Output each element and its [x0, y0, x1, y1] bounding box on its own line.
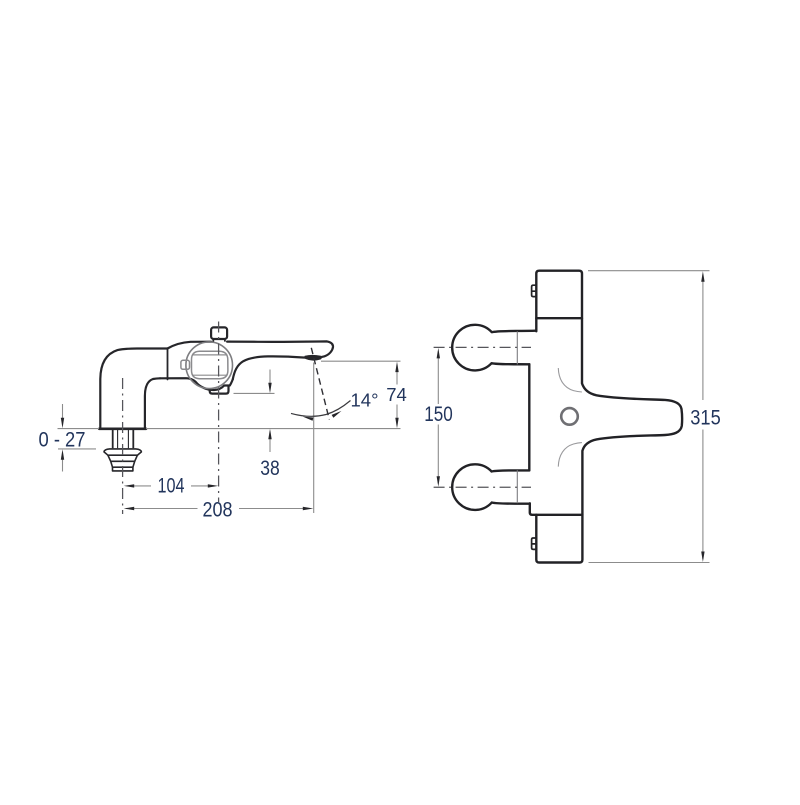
svg-text:150: 150 [424, 402, 453, 426]
svg-text:104: 104 [158, 473, 185, 497]
svg-text:208: 208 [203, 498, 233, 522]
svg-text:14°: 14° [351, 390, 379, 411]
svg-text:74: 74 [386, 384, 407, 405]
svg-text:0 - 27: 0 - 27 [39, 427, 86, 451]
svg-text:38: 38 [260, 456, 280, 480]
svg-text:315: 315 [690, 405, 721, 429]
